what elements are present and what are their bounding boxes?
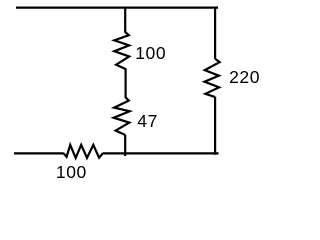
wire bottom left lead [14, 152, 64, 154]
label 100 (R4 value) [56, 164, 87, 182]
wire middle branch top lead [124, 8, 126, 33]
wire top horizontal [16, 6, 218, 8]
resistor R2 47 (middle lower) [114, 97, 130, 135]
wire right branch bottom lead [214, 97, 216, 155]
label 220 (R3 value) [229, 69, 260, 87]
wire right branch top lead [214, 8, 216, 59]
label 100 (R1 value) [135, 45, 166, 63]
resistor R3 220 (right) [205, 59, 220, 97]
resistor R1 100 (middle upper) [114, 32, 129, 69]
wire bottom right segment [103, 152, 219, 154]
wire middle branch bottom lead [124, 135, 126, 156]
wire between R1 and R2 [124, 69, 126, 97]
label 47 (R2 value) [137, 113, 158, 131]
resistor R4 100 (bottom horizontal) [64, 145, 103, 158]
